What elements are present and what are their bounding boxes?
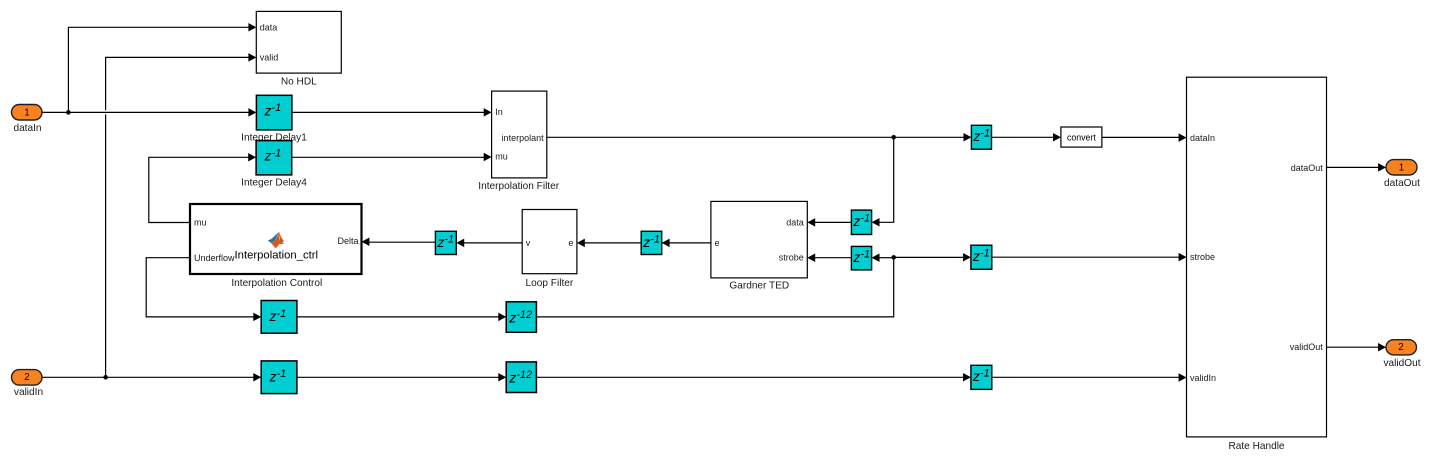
block No HDL bbox=[256, 11, 341, 87]
delay Z2 between Gardner TED and Loop Filter bbox=[641, 231, 662, 254]
wire Gardner TED e to Z2 bbox=[662, 239, 711, 248]
svg-text:validOut: validOut bbox=[1290, 342, 1324, 352]
block Integer Delay4 bbox=[241, 141, 307, 189]
svg-text:mu: mu bbox=[495, 152, 508, 162]
delay row3 Z-1 bbox=[261, 301, 297, 334]
svg-text:validIn: validIn bbox=[14, 387, 43, 398]
wire mu feedback to Integer Delay4 bbox=[149, 153, 256, 222]
junction dot interpolant branch bbox=[891, 135, 896, 140]
svg-text:1: 1 bbox=[1399, 162, 1404, 173]
wire Integer Delay1 to Interpolation Filter In bbox=[292, 108, 492, 117]
wire Z7 to Rate Handle validIn bbox=[992, 373, 1187, 382]
wire convert to Rate Handle dataIn bbox=[1102, 133, 1187, 142]
block Loop Filter bbox=[522, 210, 577, 290]
delay Z3 data feedback bbox=[851, 210, 871, 234]
svg-text:dataIn: dataIn bbox=[13, 123, 41, 134]
wire Z6 to Rate Handle strobe bbox=[992, 253, 1187, 262]
delay Z5 before convert bbox=[971, 125, 991, 149]
wire row3 delay to Z-12 bbox=[297, 313, 506, 322]
wire Rate Handle validOut to outport 2 bbox=[1327, 343, 1387, 352]
delay row4 Z-1 bbox=[261, 361, 297, 394]
inport 2 validIn bbox=[12, 370, 44, 398]
svg-text:validOut: validOut bbox=[1383, 358, 1420, 369]
block Gardner TED bbox=[711, 201, 807, 291]
svg-text:Rate Handle: Rate Handle bbox=[1228, 441, 1284, 452]
svg-text:dataOut: dataOut bbox=[1291, 163, 1324, 173]
wire Loop Filter v to Z1 bbox=[456, 239, 522, 248]
svg-text:1: 1 bbox=[24, 107, 29, 118]
wire Z4 to Gardner TED strobe bbox=[807, 253, 851, 262]
svg-text:Delta: Delta bbox=[337, 236, 358, 246]
outport 2 validOut bbox=[1383, 340, 1420, 369]
MATLAB function icon bbox=[268, 232, 285, 248]
svg-text:dataOut: dataOut bbox=[1384, 178, 1420, 189]
wire interpolant to delay Z5 bbox=[547, 133, 972, 142]
delay row3 Z-12 bbox=[506, 302, 536, 333]
svg-text:data: data bbox=[786, 218, 804, 228]
junction dot validIn branch bbox=[103, 375, 108, 380]
svg-text:2: 2 bbox=[1398, 342, 1403, 353]
svg-text:mu: mu bbox=[194, 218, 207, 228]
svg-text:dataIn: dataIn bbox=[1190, 133, 1215, 143]
svg-text:strobe: strobe bbox=[1190, 252, 1215, 262]
wire Rate Handle dataOut to outport 1 bbox=[1327, 163, 1387, 172]
junction dot strobe branch bbox=[891, 255, 896, 260]
wire Z2 to Loop Filter e bbox=[577, 239, 641, 248]
svg-text:Interpolation Control: Interpolation Control bbox=[231, 278, 322, 289]
wire row3 Z-12 up to strobe junction bbox=[536, 257, 893, 317]
wire strobe junction to Z6 bbox=[894, 253, 971, 261]
svg-text:v: v bbox=[526, 238, 531, 248]
block Interpolation Control bbox=[190, 204, 362, 289]
wire interpolant branch down to Z3 bbox=[872, 137, 894, 226]
wire row4 Z-12 to Z7 bbox=[536, 373, 971, 382]
svg-text:Interpolation Filter: Interpolation Filter bbox=[478, 181, 559, 192]
delay row4 Z-12 bbox=[506, 362, 536, 393]
wire Z1 to Interpolation Control Delta bbox=[362, 238, 436, 247]
wire validIn branch to No HDL valid bbox=[106, 53, 257, 377]
svg-text:Integer Delay4: Integer Delay4 bbox=[241, 177, 307, 188]
svg-text:Loop Filter: Loop Filter bbox=[526, 278, 574, 289]
block Integer Delay1 bbox=[256, 95, 292, 130]
block convert bbox=[1061, 127, 1102, 147]
svg-text:Underflow: Underflow bbox=[194, 253, 235, 263]
junction dot dataIn branch bbox=[66, 110, 71, 115]
svg-text:Gardner TED: Gardner TED bbox=[729, 281, 789, 292]
delay Z7 valid to Rate Handle bbox=[971, 365, 992, 389]
wire Underflow feedback to row3 delay bbox=[146, 258, 261, 321]
wire dataIn branch to No HDL data bbox=[68, 23, 256, 112]
wire dataIn to Integer Delay1 bbox=[42, 108, 256, 117]
block Rate Handle bbox=[1187, 77, 1327, 452]
delay Z6 strobe to Rate Handle bbox=[971, 245, 992, 269]
wire row4 delay to Z-12 bbox=[297, 373, 506, 382]
svg-text:validIn: validIn bbox=[1190, 373, 1216, 383]
svg-text:interpolant: interpolant bbox=[502, 133, 545, 143]
wire validIn to row4 delay bbox=[42, 373, 261, 382]
wire Integer Delay4 to Interpolation Filter mu bbox=[292, 153, 492, 162]
svg-text:In: In bbox=[495, 107, 503, 117]
inport 1 dataIn bbox=[12, 105, 43, 134]
svg-text:convert: convert bbox=[1067, 133, 1096, 143]
wire Z5 to convert bbox=[992, 133, 1061, 142]
svg-text:data: data bbox=[260, 22, 278, 32]
wire Z3 to Gardner TED data bbox=[807, 218, 851, 227]
block Interpolation Filter bbox=[478, 91, 559, 192]
svg-text:Interpolation_ctrl: Interpolation_ctrl bbox=[235, 250, 319, 262]
svg-text:strobe: strobe bbox=[779, 253, 804, 263]
svg-text:2: 2 bbox=[24, 372, 29, 383]
svg-text:e: e bbox=[715, 238, 720, 248]
svg-text:e: e bbox=[568, 238, 573, 248]
delay Z4 strobe feedback bbox=[851, 246, 871, 270]
wire strobe junction to Z4 bbox=[872, 253, 894, 262]
outport 1 dataOut bbox=[1384, 160, 1420, 189]
svg-text:No HDL: No HDL bbox=[281, 76, 317, 87]
delay Z1 feedback to Delta bbox=[435, 231, 456, 254]
svg-text:valid: valid bbox=[260, 52, 279, 62]
